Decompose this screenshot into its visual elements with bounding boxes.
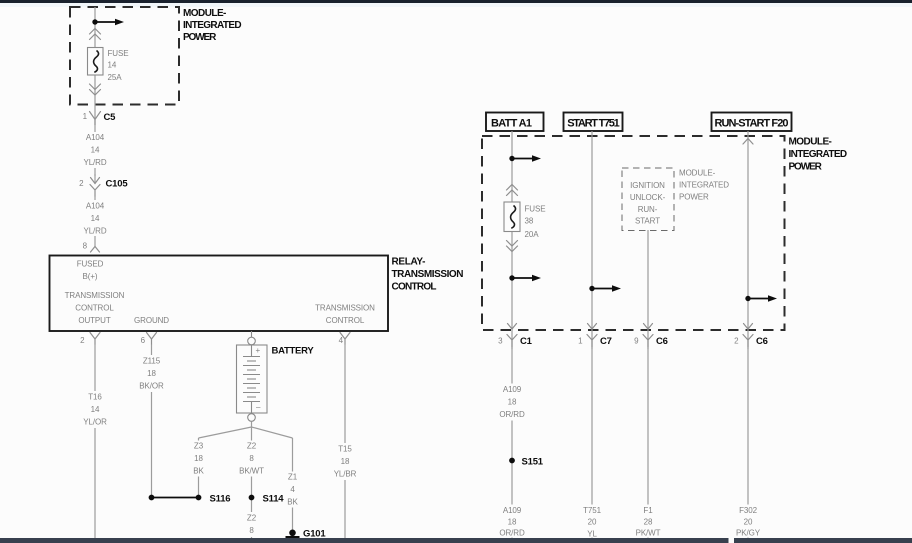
svg-text:20: 20 <box>588 518 597 527</box>
svg-text:CONTROL: CONTROL <box>326 316 365 325</box>
relay-transmission control box <box>50 256 389 332</box>
svg-text:4: 4 <box>339 336 344 345</box>
svg-text:C5: C5 <box>104 112 117 123</box>
node: junction dot + arrow (fuse 14 feed) <box>92 19 124 26</box>
connector pin 2 (relay box) <box>80 333 100 346</box>
wire A104 lower <box>94 197 96 243</box>
svg-text:YL/BR: YL/BR <box>334 470 357 479</box>
label: FUSE 38 20A <box>525 205 546 240</box>
svg-text:14: 14 <box>91 214 100 223</box>
svg-text:2: 2 <box>79 179 84 188</box>
wire T751 (below C7) <box>591 349 593 538</box>
label: Z3 18 BK <box>189 441 209 477</box>
label: TRANSMISSION CONTROL OUTPUT <box>65 291 125 325</box>
label: Z1 4 BK <box>283 472 303 508</box>
svg-text:Z1: Z1 <box>288 473 298 482</box>
svg-text:OUTPUT: OUTPUT <box>78 316 111 325</box>
svg-text:18: 18 <box>194 454 203 463</box>
svg-text:S151: S151 <box>522 457 544 468</box>
svg-text:S116: S116 <box>210 494 231 505</box>
svg-text:TRANSMISSION: TRANSMISSION <box>315 304 375 313</box>
svg-text:YL: YL <box>587 530 597 539</box>
ground G101 <box>286 529 327 540</box>
label: TRANSMISSION CONTROL <box>315 304 375 326</box>
svg-text:25A: 25A <box>108 73 123 82</box>
svg-text:YL/RD: YL/RD <box>83 158 106 167</box>
wire Z2 <box>251 427 253 538</box>
node: junction on Z115 wire <box>149 495 199 501</box>
svg-text:Z2: Z2 <box>247 442 257 451</box>
svg-text:BK/OR: BK/OR <box>139 382 164 391</box>
svg-text:T16: T16 <box>88 393 102 402</box>
wire Z115 <box>151 345 153 498</box>
svg-text:PK/GY: PK/GY <box>736 529 761 538</box>
svg-text:3: 3 <box>498 337 503 346</box>
svg-text:2: 2 <box>734 337 739 346</box>
battery B1 <box>237 331 268 421</box>
svg-text:C105: C105 <box>106 179 129 190</box>
svg-text:–: – <box>256 403 261 412</box>
svg-text:Z2: Z2 <box>247 514 257 523</box>
svg-text:RELAY-: RELAY- <box>392 257 426 268</box>
connector chevrons below fuse 14 <box>90 84 101 95</box>
svg-text:CONTROL: CONTROL <box>392 282 437 293</box>
label: MODULE-INTEGRATED POWER (left bold) <box>183 8 242 43</box>
svg-text:FUSE: FUSE <box>525 205 546 214</box>
svg-text:38: 38 <box>525 217 534 226</box>
connector C5 (pin 1) <box>83 112 117 126</box>
svg-text:MODULE-: MODULE- <box>789 137 832 148</box>
svg-text:INTEGRATED: INTEGRATED <box>789 149 848 160</box>
svg-text:MODULE-: MODULE- <box>679 169 716 178</box>
label: T16 14 YL/OR <box>81 391 109 428</box>
svg-text:+: + <box>256 346 261 355</box>
wire: start T751 vertical x592 <box>591 131 593 347</box>
label: A109 18 OR/RD (lower) <box>497 505 527 538</box>
svg-text:F302: F302 <box>739 506 757 515</box>
connector pin 6 (relay box) <box>141 333 157 346</box>
svg-text:C1: C1 <box>520 336 533 347</box>
node: junction dot + arrow (batt A1 lower) <box>509 275 541 282</box>
svg-text:RUN-START F20: RUN-START F20 <box>715 118 789 130</box>
label: BATTERY (bold) <box>272 346 315 357</box>
label: FUSE 14 25A <box>108 49 129 82</box>
svg-text:YL/RD: YL/RD <box>83 227 106 236</box>
label: A104 14 YL/RD (lower) <box>81 200 109 236</box>
label: GROUND <box>134 316 169 325</box>
wire A109 (below C1) <box>511 349 513 538</box>
svg-text:BATTERY: BATTERY <box>272 346 315 357</box>
svg-text:RUN-: RUN- <box>638 205 658 214</box>
label: F302 20 PK/GY <box>733 505 763 538</box>
ignition unlock-run-start dashed box <box>622 168 674 231</box>
svg-text:18: 18 <box>508 518 517 527</box>
svg-text:C6: C6 <box>756 336 768 347</box>
wire F302 (below C6 pin 2) <box>747 349 749 538</box>
svg-text:PK/WT: PK/WT <box>636 529 661 538</box>
svg-text:C7: C7 <box>600 336 612 347</box>
svg-text:INTEGRATED: INTEGRATED <box>183 20 242 31</box>
svg-text:A109: A109 <box>503 385 522 394</box>
connector chevrons below fuse 38 <box>507 241 518 252</box>
label: T15 18 YL/BR <box>330 443 360 480</box>
svg-text:BK: BK <box>193 467 204 476</box>
svg-text:UNLOCK-: UNLOCK- <box>630 193 666 202</box>
svg-text:9: 9 <box>634 337 639 346</box>
svg-text:6: 6 <box>141 336 146 345</box>
connector C6 (pin 9) <box>634 324 668 350</box>
svg-text:MODULE-: MODULE- <box>183 8 226 19</box>
svg-text:B(+): B(+) <box>83 272 98 281</box>
node: junction dot + arrow (start) <box>589 285 621 292</box>
svg-text:T751: T751 <box>583 506 601 515</box>
wire: batt A1 vertical x512 <box>511 131 513 347</box>
bottom border bar right segment <box>734 538 912 543</box>
top border bar <box>0 0 912 7</box>
connector chevrons above fuse 38 <box>507 185 518 196</box>
wire A104 upper <box>94 125 96 176</box>
svg-text:18: 18 <box>508 398 517 407</box>
connector pin 8 into relay box <box>83 242 100 253</box>
label: F1 28 PK/WT <box>633 505 663 538</box>
svg-text:20A: 20A <box>525 230 540 239</box>
wire: run-start F20 vertical x748 <box>747 131 749 347</box>
svg-text:GROUND: GROUND <box>134 316 169 325</box>
svg-text:S114: S114 <box>263 494 285 505</box>
splice S151 <box>509 457 544 468</box>
label: A109 18 OR/RD (upper) <box>497 384 527 421</box>
svg-text:18: 18 <box>341 457 350 466</box>
svg-text:BATT A1: BATT A1 <box>491 118 532 130</box>
label: A104 14 YL/RD (upper) <box>81 132 109 168</box>
svg-text:A109: A109 <box>503 506 522 515</box>
wire: battery negative splits <box>199 421 293 438</box>
node: junction dot + arrow (batt A1 upper) <box>509 155 541 162</box>
svg-text:F1: F1 <box>643 506 653 515</box>
svg-text:IGNITION: IGNITION <box>630 181 665 190</box>
header box BATT A1 <box>486 113 544 132</box>
fuse F14 symbol <box>88 48 104 76</box>
splice S114 <box>249 494 285 505</box>
svg-text:28: 28 <box>644 518 653 527</box>
svg-text:Z115: Z115 <box>143 357 161 366</box>
svg-text:TRANSMISSION: TRANSMISSION <box>65 291 125 300</box>
svg-text:14: 14 <box>91 146 100 155</box>
svg-text:1: 1 <box>83 112 88 121</box>
connector C1 (pin 3) <box>498 324 533 350</box>
svg-text:A104: A104 <box>86 133 105 142</box>
svg-text:A104: A104 <box>86 202 105 211</box>
header box START T751 <box>564 113 623 132</box>
svg-text:4: 4 <box>290 485 295 494</box>
svg-text:8: 8 <box>249 454 254 463</box>
svg-text:POWER: POWER <box>679 193 709 202</box>
wire Z3 <box>198 438 200 498</box>
svg-text:START: START <box>635 217 660 226</box>
svg-text:FUSE: FUSE <box>108 49 129 58</box>
fuse F38 symbol <box>504 202 520 232</box>
svg-text:POWER: POWER <box>789 162 823 173</box>
svg-text:G101: G101 <box>303 529 326 540</box>
svg-text:Z3: Z3 <box>194 442 204 451</box>
label: T751 20 YL <box>578 505 606 539</box>
svg-text:2: 2 <box>80 336 85 345</box>
label: Z2 8 BK/WT <box>237 441 267 477</box>
svg-text:OR/RD: OR/RD <box>499 410 525 419</box>
label: Z2 8 (below S114) <box>244 512 260 537</box>
splice S116 <box>196 494 231 505</box>
node: junction dot + arrow (run-start) <box>745 295 777 302</box>
label: MODULE-INTEGRATED POWER (right bold) <box>789 137 848 173</box>
svg-text:START T751: START T751 <box>567 118 620 130</box>
wire T15 <box>344 345 346 539</box>
connector chevron at run-start box entry <box>743 139 753 145</box>
svg-text:14: 14 <box>108 61 117 70</box>
module-integrated power dashed box (right) <box>482 136 785 330</box>
connector C6 (pin 2) <box>734 324 768 350</box>
label: IGNITION UNLOCK-RUN-START <box>630 181 666 226</box>
label: MODULE-INTEGRATED POWER (plain) <box>679 169 729 202</box>
svg-text:C6: C6 <box>656 336 668 347</box>
wire F1 (below C6 pin 9) <box>647 349 649 538</box>
label: Z115 18 BK/OR <box>137 355 167 392</box>
wire Z1 <box>292 438 294 533</box>
svg-text:8: 8 <box>249 526 254 535</box>
svg-text:OR/RD: OR/RD <box>499 529 525 538</box>
svg-text:BK: BK <box>287 498 298 507</box>
svg-text:14: 14 <box>91 405 100 414</box>
svg-text:CONTROL: CONTROL <box>75 304 114 313</box>
wire: ignition output vertical x648 <box>647 230 649 347</box>
label: FUSED B(+) <box>77 260 104 282</box>
connector C105 (pin 2) <box>79 174 128 197</box>
connector C7 (pin 1) <box>578 324 612 350</box>
svg-text:T15: T15 <box>338 445 352 454</box>
svg-text:8: 8 <box>83 242 88 251</box>
svg-text:POWER: POWER <box>183 32 217 43</box>
bottom border bar left segment <box>0 538 729 543</box>
wire: fuse14 feed vertical x95 <box>94 7 96 125</box>
svg-text:FUSED: FUSED <box>77 260 104 269</box>
svg-text:BK/WT: BK/WT <box>239 467 264 476</box>
svg-text:TRANSMISSION: TRANSMISSION <box>392 269 464 280</box>
label: RELAY-TRANSMISSION CONTROL (bold) <box>392 257 464 293</box>
connector pin 4 (relay box) <box>339 333 350 346</box>
connector chevrons above fuse 14 <box>90 29 101 40</box>
header box RUN-START F20 <box>712 113 792 132</box>
svg-text:18: 18 <box>147 369 156 378</box>
svg-text:20: 20 <box>744 518 753 527</box>
wire T16 <box>94 345 96 539</box>
svg-text:YL/OR: YL/OR <box>83 418 107 427</box>
module-integrated power dashed box (left) <box>70 7 179 105</box>
svg-text:1: 1 <box>578 337 583 346</box>
svg-text:INTEGRATED: INTEGRATED <box>679 181 729 190</box>
